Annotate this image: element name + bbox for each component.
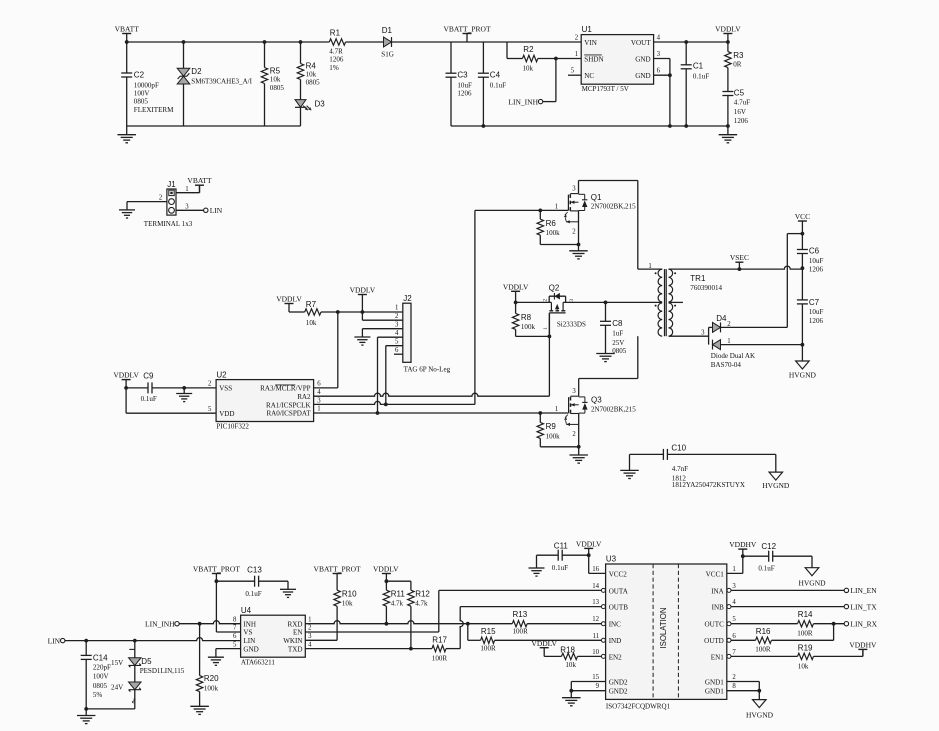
- svg-text:100k: 100k: [204, 684, 219, 692]
- svg-text:VDDLV: VDDLV: [576, 539, 602, 548]
- svg-text:10: 10: [592, 649, 599, 656]
- svg-text:1: 1: [185, 186, 188, 193]
- svg-text:100k: 100k: [521, 323, 536, 331]
- svg-text:1: 1: [732, 566, 735, 573]
- svg-text:VDDLV: VDDLV: [350, 286, 376, 295]
- svg-text:EN1: EN1: [711, 653, 724, 661]
- svg-text:GND: GND: [635, 72, 650, 80]
- svg-text:0805: 0805: [93, 682, 108, 690]
- svg-text:1%: 1%: [329, 64, 339, 72]
- svg-text:VDDLV: VDDLV: [276, 295, 302, 304]
- svg-text:2: 2: [308, 625, 312, 632]
- svg-text:5: 5: [208, 406, 212, 413]
- svg-text:220pF: 220pF: [93, 664, 111, 672]
- svg-text:OUTC: OUTC: [704, 621, 724, 629]
- svg-text:ATA663211: ATA663211: [241, 659, 275, 667]
- svg-text:SHDN: SHDN: [584, 55, 603, 63]
- svg-text:BAS70-04: BAS70-04: [711, 361, 742, 369]
- svg-text:100R: 100R: [755, 645, 771, 653]
- svg-text:R20: R20: [204, 674, 219, 683]
- svg-text:8: 8: [233, 616, 237, 623]
- svg-text:4: 4: [308, 641, 312, 648]
- svg-text:C9: C9: [143, 371, 154, 380]
- svg-text:0R: 0R: [733, 61, 742, 69]
- svg-text:C10: C10: [671, 444, 686, 453]
- svg-text:R18: R18: [560, 645, 575, 654]
- svg-text:HVGND: HVGND: [746, 711, 774, 720]
- svg-text:8: 8: [732, 683, 736, 690]
- svg-text:3: 3: [185, 203, 189, 210]
- svg-text:LIN_TX: LIN_TX: [850, 602, 877, 611]
- svg-text:D5: D5: [141, 657, 152, 666]
- svg-text:2N7002BK,215: 2N7002BK,215: [591, 203, 636, 211]
- svg-text:ISOLATION: ISOLATION: [659, 607, 668, 648]
- svg-text:1: 1: [555, 406, 558, 413]
- svg-text:VDDHV: VDDHV: [849, 640, 877, 649]
- svg-text:R15: R15: [481, 627, 496, 636]
- svg-text:NC: NC: [584, 72, 594, 80]
- svg-text:VDDHV: VDDHV: [729, 540, 757, 549]
- svg-text:R19: R19: [798, 644, 813, 653]
- svg-text:D4: D4: [716, 314, 727, 323]
- svg-text:R7: R7: [306, 300, 317, 309]
- svg-text:INH: INH: [243, 620, 256, 628]
- svg-text:4: 4: [732, 599, 736, 606]
- svg-text:R2: R2: [523, 45, 534, 54]
- svg-text:2: 2: [159, 195, 163, 202]
- svg-text:VDDLV: VDDLV: [503, 282, 529, 291]
- svg-text:2: 2: [572, 431, 576, 438]
- svg-text:C3: C3: [457, 71, 468, 80]
- svg-text:R10: R10: [342, 589, 357, 598]
- svg-text:PESD1LIN,115: PESD1LIN,115: [140, 667, 185, 675]
- svg-text:LIN_RX: LIN_RX: [850, 619, 877, 628]
- svg-text:R1: R1: [330, 29, 341, 38]
- svg-text:760390014: 760390014: [690, 284, 722, 292]
- svg-text:TAG 6P No-Leg: TAG 6P No-Leg: [404, 365, 451, 373]
- svg-text:U2: U2: [216, 370, 227, 379]
- svg-text:MCP1793T / 5V: MCP1793T / 5V: [582, 85, 630, 93]
- svg-text:VSEC: VSEC: [730, 253, 749, 262]
- svg-text:GND2: GND2: [609, 688, 628, 696]
- svg-text:U3: U3: [606, 555, 617, 564]
- svg-text:VBATT: VBATT: [187, 176, 212, 185]
- svg-text:R6: R6: [546, 219, 557, 228]
- svg-text:15V: 15V: [111, 659, 124, 667]
- svg-text:6: 6: [317, 381, 321, 388]
- svg-text:VDDLV: VDDLV: [715, 24, 741, 33]
- svg-text:U4: U4: [241, 606, 252, 615]
- svg-text:VCC1: VCC1: [706, 570, 725, 578]
- svg-text:1812YA250472KSTUYX: 1812YA250472KSTUYX: [672, 481, 745, 489]
- svg-text:10uF: 10uF: [457, 82, 472, 90]
- svg-text:10k: 10k: [342, 599, 353, 607]
- svg-text:0.1uF: 0.1uF: [693, 73, 709, 81]
- svg-text:R4: R4: [306, 61, 317, 70]
- svg-text:16: 16: [592, 566, 599, 573]
- svg-text:1206: 1206: [329, 56, 344, 64]
- svg-text:25V: 25V: [612, 339, 625, 347]
- svg-text:C14: C14: [93, 653, 108, 662]
- svg-text:6: 6: [657, 68, 661, 75]
- svg-text:VDDLV: VDDLV: [373, 565, 399, 574]
- svg-text:12: 12: [592, 616, 599, 623]
- svg-text:3: 3: [701, 329, 705, 336]
- svg-text:VCC2: VCC2: [609, 570, 628, 578]
- svg-text:RA0/ICSPDAT: RA0/ICSPDAT: [266, 410, 311, 418]
- svg-text:5: 5: [395, 338, 399, 345]
- svg-text:Q3: Q3: [591, 396, 602, 405]
- svg-text:VIN: VIN: [584, 39, 597, 47]
- svg-text:TERMINAL 1x3: TERMINAL 1x3: [144, 220, 193, 228]
- svg-text:VCC: VCC: [795, 212, 810, 221]
- svg-text:IND: IND: [609, 637, 622, 645]
- svg-text:C12: C12: [761, 542, 776, 551]
- svg-text:LIN: LIN: [210, 206, 223, 215]
- svg-text:WKIN: WKIN: [283, 637, 302, 645]
- svg-text:100R: 100R: [432, 654, 448, 662]
- svg-text:1uF: 1uF: [612, 330, 623, 338]
- svg-text:1206: 1206: [457, 90, 472, 98]
- svg-text:C11: C11: [554, 542, 569, 551]
- svg-text:RA2: RA2: [297, 393, 311, 401]
- svg-text:RA3/MCLR/VPP: RA3/MCLR/VPP: [260, 385, 311, 393]
- svg-text:24V: 24V: [111, 683, 124, 691]
- svg-text:1: 1: [555, 203, 558, 210]
- svg-text:1206: 1206: [734, 117, 749, 125]
- svg-text:RXD: RXD: [288, 620, 303, 628]
- svg-text:C7: C7: [809, 298, 820, 307]
- svg-text:1: 1: [317, 406, 320, 413]
- svg-text:S1G: S1G: [381, 50, 394, 58]
- svg-text:7: 7: [732, 649, 736, 656]
- svg-text:EN: EN: [293, 629, 302, 637]
- svg-text:R3: R3: [733, 51, 744, 60]
- svg-text:1: 1: [727, 338, 730, 345]
- svg-text:U1: U1: [582, 25, 593, 34]
- svg-text:1: 1: [575, 51, 578, 58]
- svg-text:5: 5: [732, 616, 736, 623]
- svg-text:Q1: Q1: [591, 193, 602, 202]
- svg-text:VDDLV: VDDLV: [531, 639, 557, 648]
- svg-text:GND1: GND1: [705, 688, 724, 696]
- svg-text:5: 5: [571, 68, 575, 75]
- svg-text:0.1uF: 0.1uF: [141, 395, 157, 403]
- svg-text:R13: R13: [513, 610, 528, 619]
- svg-text:4.7R: 4.7R: [329, 48, 343, 56]
- svg-text:1: 1: [543, 327, 549, 330]
- svg-text:D2: D2: [191, 67, 202, 76]
- svg-text:INC: INC: [609, 621, 621, 629]
- svg-text:0805: 0805: [134, 98, 149, 106]
- svg-text:C8: C8: [612, 319, 623, 328]
- svg-text:3: 3: [569, 299, 575, 302]
- svg-text:LIN: LIN: [48, 636, 61, 645]
- svg-text:10k: 10k: [798, 662, 809, 670]
- svg-text:5: 5: [233, 641, 237, 648]
- svg-text:D1: D1: [382, 26, 393, 35]
- svg-text:1206: 1206: [809, 266, 824, 274]
- svg-text:R16: R16: [756, 627, 771, 636]
- svg-text:RA1/ICSPCLK: RA1/ICSPCLK: [266, 401, 311, 409]
- svg-text:SM6T39CAHE3_A/I: SM6T39CAHE3_A/I: [191, 78, 252, 86]
- svg-text:10uF: 10uF: [809, 257, 824, 265]
- svg-text:C1: C1: [693, 62, 704, 71]
- svg-text:VBATT_PROT: VBATT_PROT: [314, 565, 362, 574]
- svg-text:3: 3: [317, 397, 321, 404]
- svg-text:R5: R5: [270, 67, 281, 76]
- svg-text:100V: 100V: [134, 90, 151, 98]
- svg-text:FLEXITERM: FLEXITERM: [134, 106, 174, 114]
- svg-text:EN2: EN2: [609, 653, 622, 661]
- svg-text:VBATT_PROT: VBATT_PROT: [193, 565, 241, 574]
- svg-text:INA: INA: [711, 587, 724, 595]
- svg-text:2: 2: [575, 35, 579, 42]
- svg-text:6: 6: [395, 347, 399, 354]
- svg-text:HVGND: HVGND: [798, 578, 826, 587]
- svg-text:0.1uF: 0.1uF: [490, 82, 506, 90]
- svg-text:J1: J1: [167, 180, 176, 189]
- svg-text:OUTB: OUTB: [609, 604, 629, 612]
- svg-text:100k: 100k: [546, 229, 561, 237]
- svg-text:0805: 0805: [612, 347, 627, 355]
- svg-text:OUTD: OUTD: [704, 637, 724, 645]
- svg-text:GND1: GND1: [705, 678, 724, 686]
- svg-text:VSS: VSS: [219, 385, 232, 393]
- svg-text:4: 4: [657, 35, 661, 42]
- svg-text:10k: 10k: [565, 661, 576, 669]
- svg-text:3: 3: [657, 51, 661, 58]
- svg-text:100R: 100R: [513, 628, 529, 636]
- svg-text:PIC10F322: PIC10F322: [216, 422, 249, 430]
- svg-text:100R: 100R: [797, 629, 813, 637]
- svg-text:C4: C4: [490, 71, 501, 80]
- svg-text:10k: 10k: [270, 76, 281, 84]
- svg-text:14: 14: [592, 583, 599, 590]
- svg-text:VDD: VDD: [219, 410, 234, 418]
- svg-text:10uF: 10uF: [809, 308, 824, 316]
- svg-text:R8: R8: [521, 313, 532, 322]
- svg-text:TXD: TXD: [288, 645, 303, 653]
- svg-text:4.7k: 4.7k: [391, 599, 404, 607]
- svg-text:10k: 10k: [306, 319, 317, 327]
- svg-text:2: 2: [732, 674, 736, 681]
- svg-text:0.1uF: 0.1uF: [245, 590, 261, 598]
- svg-text:1: 1: [648, 263, 651, 270]
- svg-text:10000pF: 10000pF: [134, 81, 159, 89]
- svg-text:R9: R9: [546, 422, 557, 431]
- svg-text:VDDLV: VDDLV: [113, 371, 139, 380]
- svg-text:4: 4: [317, 389, 321, 396]
- svg-text:5%: 5%: [93, 691, 103, 699]
- svg-text:VOUT: VOUT: [631, 39, 651, 47]
- svg-text:LIN_EN: LIN_EN: [850, 586, 877, 595]
- svg-text:LIN: LIN: [243, 637, 255, 645]
- svg-text:0.1uF: 0.1uF: [552, 564, 568, 572]
- svg-text:R12: R12: [415, 589, 430, 598]
- svg-text:2: 2: [727, 321, 731, 328]
- svg-text:0805: 0805: [306, 79, 321, 87]
- svg-text:3: 3: [732, 583, 736, 590]
- svg-text:100k: 100k: [546, 432, 561, 440]
- svg-text:R17: R17: [432, 635, 447, 644]
- svg-text:4.7nF: 4.7nF: [672, 465, 688, 473]
- svg-text:15: 15: [592, 674, 599, 681]
- svg-text:HVGND: HVGND: [789, 370, 817, 379]
- svg-text:GND: GND: [635, 55, 650, 63]
- svg-text:GND: GND: [243, 645, 258, 653]
- svg-text:Q2: Q2: [549, 283, 560, 292]
- svg-text:R14: R14: [798, 610, 813, 619]
- svg-text:C2: C2: [134, 71, 145, 80]
- svg-text:LIN_INH: LIN_INH: [508, 97, 538, 106]
- svg-text:2N7002BK,215: 2N7002BK,215: [591, 405, 636, 413]
- svg-text:1206: 1206: [809, 317, 824, 325]
- svg-text:6: 6: [233, 633, 237, 640]
- svg-text:10k: 10k: [523, 65, 534, 73]
- svg-text:4: 4: [395, 330, 399, 337]
- svg-text:GND2: GND2: [609, 678, 628, 686]
- svg-text:R11: R11: [391, 589, 406, 598]
- svg-text:9: 9: [596, 683, 600, 690]
- svg-text:7: 7: [233, 625, 237, 632]
- svg-text:10k: 10k: [306, 70, 317, 78]
- svg-text:4.7uF: 4.7uF: [734, 99, 750, 107]
- svg-text:VBATT_PROT: VBATT_PROT: [443, 24, 491, 33]
- svg-text:13: 13: [592, 599, 599, 606]
- svg-text:C6: C6: [809, 247, 820, 256]
- svg-text:100R: 100R: [480, 645, 496, 653]
- svg-text:4.7k: 4.7k: [415, 599, 428, 607]
- svg-text:2: 2: [572, 229, 576, 236]
- svg-text:3: 3: [572, 185, 576, 192]
- svg-text:0.1uF: 0.1uF: [758, 565, 774, 573]
- svg-text:LIN_INH: LIN_INH: [145, 619, 175, 628]
- svg-text:Si2333DS: Si2333DS: [557, 320, 586, 328]
- svg-text:0805: 0805: [270, 84, 285, 92]
- svg-text:C13: C13: [247, 566, 262, 575]
- svg-text:2: 2: [208, 381, 212, 388]
- svg-text:1: 1: [308, 616, 311, 623]
- svg-text:1: 1: [395, 304, 398, 311]
- svg-text:16V: 16V: [734, 108, 747, 116]
- svg-text:3: 3: [572, 388, 576, 395]
- svg-text:11: 11: [592, 633, 599, 640]
- svg-text:VS: VS: [243, 629, 252, 637]
- svg-text:3: 3: [395, 321, 399, 328]
- svg-text:2: 2: [542, 299, 548, 302]
- svg-text:D3: D3: [315, 99, 326, 108]
- svg-text:2: 2: [395, 313, 399, 320]
- svg-text:OUTA: OUTA: [609, 587, 629, 595]
- svg-text:3: 3: [308, 633, 312, 640]
- svg-text:HVGND: HVGND: [762, 481, 790, 490]
- svg-text:J2: J2: [403, 294, 412, 303]
- svg-text:INB: INB: [712, 604, 724, 612]
- svg-text:TR1: TR1: [690, 274, 706, 283]
- svg-text:VBATT: VBATT: [115, 24, 140, 33]
- svg-text:6: 6: [732, 633, 736, 640]
- svg-text:ISO7342FCQDWRQ1: ISO7342FCQDWRQ1: [606, 702, 671, 710]
- svg-text:C5: C5: [734, 88, 745, 97]
- svg-text:Diode Dual AK: Diode Dual AK: [711, 352, 756, 360]
- svg-text:100V: 100V: [93, 673, 110, 681]
